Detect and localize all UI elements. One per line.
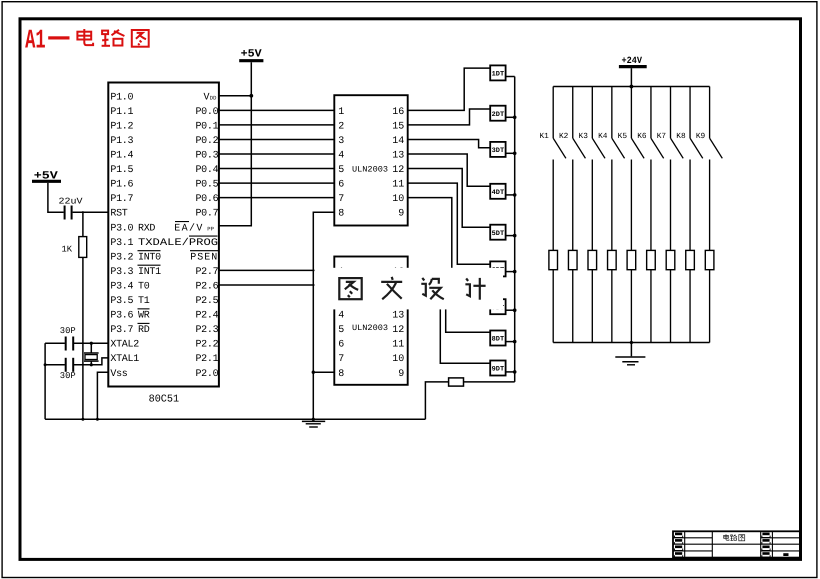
svg-text:K5: K5: [618, 132, 628, 141]
node U3 pin8 junction: [312, 371, 315, 374]
svg-text:P1.5: P1.5: [110, 165, 133, 176]
wire 1DT output: [506, 76, 515, 78]
svg-text:P2.0: P2.0: [195, 369, 218, 380]
node C3 left junction: [44, 363, 47, 366]
wire K4 to coil: [611, 160, 613, 251]
svg-text:4DT: 4DT: [492, 189, 505, 197]
svg-text:XTAL1: XTAL1: [110, 354, 139, 365]
driver box 8DT: [490, 331, 505, 346]
wire XTAL1: [74, 358, 108, 365]
svg-text:RST: RST: [110, 209, 127, 220]
svg-text:T0: T0: [138, 281, 150, 292]
node rail R1: [81, 418, 84, 421]
svg-text:P3.4: P3.4: [110, 281, 133, 292]
relay coil J5: [627, 250, 636, 269]
svg-text:TXDALE/PROG: TXDALE/PROG: [138, 237, 218, 249]
power +5V top: [239, 49, 263, 61]
wire 4DT output: [506, 194, 515, 196]
svg-text:13: 13: [392, 311, 404, 322]
wire caps to ground: [44, 343, 46, 419]
wire 3DT output: [506, 152, 515, 154]
wire XTAL2: [74, 342, 108, 344]
wire VDD: [219, 95, 251, 97]
U1 left pin labels: [110, 92, 139, 379]
wire crystal top stub: [90, 343, 92, 353]
svg-text:9DT: 9DT: [492, 366, 505, 374]
capacitor C1 22uV: [59, 197, 84, 220]
node bus 4DT: [513, 193, 517, 197]
wire P0.1 to U2 pin 2: [219, 124, 334, 126]
wire K7 to coil: [670, 160, 672, 251]
svg-text:5: 5: [338, 165, 344, 176]
watermark glyph wen: [381, 277, 402, 299]
title block scale mark: [783, 553, 788, 556]
title block redaction marks: [675, 533, 771, 558]
svg-text:12: 12: [392, 325, 404, 336]
svg-text:P1.2: P1.2: [110, 121, 133, 132]
wire 6DT output: [506, 271, 515, 273]
capacitor C3 30P bottom: [60, 358, 76, 381]
node +24V bus: [630, 85, 634, 89]
svg-text:+24V: +24V: [622, 55, 643, 66]
svg-text:80C51: 80C51: [149, 393, 180, 405]
svg-text:16: 16: [392, 107, 404, 118]
wire +5V to C1: [48, 183, 64, 212]
relay coil J9: [705, 250, 714, 269]
title block label glyphs: [724, 534, 745, 541]
wire P0.6 to U2 pin 7: [219, 197, 334, 199]
wire coil J4 to bus: [611, 270, 613, 343]
svg-text:P1.0: P1.0: [110, 92, 133, 103]
wire K9 to coil: [709, 160, 711, 251]
wire K3 to coil: [591, 160, 593, 251]
node VDD junction: [249, 94, 253, 98]
svg-text:K1: K1: [539, 132, 549, 141]
wire U3 pin 16 to 8DT: [408, 270, 491, 332]
svg-text:P3.2: P3.2: [110, 252, 133, 263]
svg-text:1K: 1K: [62, 244, 73, 254]
svg-text:7: 7: [338, 354, 344, 365]
U1 right pin labels: [174, 92, 218, 379]
resistor R2: [449, 378, 464, 386]
wire C3 left lead: [45, 364, 65, 366]
driver box 5DT: [490, 225, 505, 240]
switch K7: [657, 87, 683, 159]
svg-text:9: 9: [398, 369, 404, 380]
svg-text:6: 6: [338, 180, 344, 191]
wire U2 pin8 to ground: [313, 212, 334, 419]
wire K8 to coil: [689, 160, 691, 251]
watermark glyph ji: [465, 278, 485, 300]
svg-text:P0.3: P0.3: [195, 151, 218, 162]
wire coil J5 to bus: [630, 270, 632, 343]
wire P0.2 to U2 pin 3: [219, 138, 334, 140]
U1 P3 function labels: [138, 223, 219, 336]
node bus 8DT: [513, 340, 517, 344]
IC U3 ULN2003: [334, 257, 407, 385]
wire 2DT output: [506, 116, 515, 118]
title block table: [673, 531, 800, 557]
svg-text:P3.7: P3.7: [110, 325, 133, 336]
ground symbol left: [302, 421, 325, 427]
svg-text:P2.3: P2.3: [195, 325, 218, 336]
node rail ULN: [312, 418, 315, 421]
wire +24V stub: [630, 68, 632, 86]
svg-text:5: 5: [338, 325, 344, 336]
svg-text:30P: 30P: [60, 326, 76, 336]
svg-text:P2.1: P2.1: [195, 354, 218, 365]
node bus 3DT: [513, 152, 517, 156]
svg-text:P0.1: P0.1: [195, 121, 218, 132]
watermark panel: [315, 268, 504, 310]
node relay ground: [630, 341, 633, 344]
node RST junction: [82, 211, 84, 213]
node bus 6DT: [513, 270, 517, 274]
title glyph lu: [102, 30, 125, 46]
svg-text:P2.7: P2.7: [195, 267, 218, 278]
wire P0.3 to U2 pin 4: [219, 153, 334, 155]
svg-text:P2.5: P2.5: [195, 296, 218, 307]
svg-text:+5V: +5V: [241, 49, 262, 61]
svg-text:DD: DD: [210, 95, 217, 102]
svg-text:P2.4: P2.4: [195, 311, 218, 322]
svg-text:P0.7: P0.7: [195, 209, 218, 220]
svg-text:P0.5: P0.5: [195, 180, 218, 191]
watermark glyph tu: [339, 278, 361, 299]
wire coil J9 to bus: [709, 270, 711, 343]
wire coil J7 to bus: [670, 270, 672, 343]
wire crystal bottom stub: [90, 361, 92, 365]
svg-text:RD: RD: [138, 325, 150, 336]
wire R1 to ground rail: [82, 257, 84, 419]
wire U2 pin 15 to 2DT: [408, 109, 491, 125]
svg-text:8DT: 8DT: [492, 336, 505, 344]
svg-text:T1: T1: [138, 296, 150, 307]
wire U2 pin 12 to 5DT: [408, 169, 491, 228]
relay coil J3: [588, 250, 597, 269]
svg-text:30P: 30P: [60, 371, 76, 381]
wire coil J8 to bus: [689, 270, 691, 343]
svg-text:V: V: [203, 92, 209, 103]
svg-text:P0.6: P0.6: [195, 194, 218, 205]
svg-text:Vss: Vss: [110, 369, 127, 380]
wire C2 left lead: [45, 342, 65, 344]
wire P0.5 to U2 pin 6: [219, 182, 334, 184]
svg-text:XTAL2: XTAL2: [110, 340, 139, 351]
wire Vss: [97, 372, 108, 419]
svg-text:K7: K7: [657, 132, 667, 141]
node bus 5DT: [513, 234, 517, 238]
svg-text:INT1: INT1: [138, 267, 161, 278]
svg-text:A1: A1: [25, 27, 45, 57]
wire U3 pin 15 to 9DT: [408, 285, 491, 363]
svg-text:P1.4: P1.4: [110, 151, 133, 162]
resistor R1 1K: [62, 237, 87, 258]
driver box 7DT: [490, 299, 505, 314]
title dash: [48, 36, 69, 39]
relay coil J4: [608, 250, 617, 269]
wire relay bottom bus: [553, 342, 709, 344]
node crystal bottom: [90, 363, 93, 366]
svg-text:INT0: INT0: [138, 252, 161, 263]
switch K8: [676, 87, 702, 159]
wire coil J3 to bus: [591, 270, 593, 343]
ground symbol relay: [615, 357, 645, 365]
switch K6: [637, 87, 663, 159]
svg-text:WR: WR: [138, 311, 150, 322]
driver box 6DT: [490, 261, 505, 276]
svg-text:3DT: 3DT: [492, 147, 505, 155]
svg-text:K4: K4: [598, 132, 608, 141]
wire U2 pin 16 to 1DT: [408, 68, 491, 110]
svg-text:P3.1: P3.1: [110, 238, 133, 249]
wire U2 pin 11 to 6DT: [408, 183, 491, 264]
svg-text:P3.5: P3.5: [110, 296, 133, 307]
driver box 1DT: [490, 65, 505, 80]
svg-text:P1.1: P1.1: [110, 107, 133, 118]
svg-text:P3.0: P3.0: [110, 223, 133, 234]
wire resistor to ground rail: [425, 382, 448, 419]
svg-text:P1.6: P1.6: [110, 180, 133, 191]
svg-text:9: 9: [398, 209, 404, 220]
wire P2.6 to U3 pin2: [219, 284, 334, 286]
svg-text:K8: K8: [676, 132, 686, 141]
svg-text:4: 4: [338, 151, 344, 162]
wire U2 pin 10 to 7DT: [408, 198, 491, 303]
node crystal top: [90, 342, 93, 345]
svg-text:8: 8: [338, 369, 344, 380]
svg-text:P2.6: P2.6: [195, 281, 218, 292]
title glyph dian: [77, 29, 93, 45]
title glyph tu: [132, 30, 149, 47]
wire K1 to coil: [552, 160, 554, 251]
svg-text:11: 11: [392, 340, 404, 351]
svg-text:6: 6: [338, 340, 344, 351]
IC U1 80C51: [108, 83, 219, 406]
node bus 7DT: [513, 308, 517, 312]
wire +5V vertical to EA: [219, 62, 251, 225]
svg-text:12: 12: [392, 165, 404, 176]
svg-text:P0.0: P0.0: [195, 107, 218, 118]
power +24V: [619, 55, 647, 66]
IC U2 ULN2003: [334, 95, 407, 225]
power +5V left: [32, 171, 61, 183]
svg-text:P1.7: P1.7: [110, 194, 133, 205]
svg-text:1: 1: [338, 107, 344, 118]
wire relay ground stub: [630, 343, 632, 357]
svg-text:1DT: 1DT: [492, 71, 505, 79]
crystal Y1: [84, 353, 99, 361]
svg-text:P2.2: P2.2: [195, 340, 218, 351]
switch K3: [579, 87, 605, 159]
svg-text:K3: K3: [579, 132, 589, 141]
svg-text:K9: K9: [696, 132, 706, 141]
driver box 3DT: [490, 142, 505, 157]
wire P0.0 to U2 pin 1: [219, 109, 334, 111]
wire U2 pin 13 to 4DT: [408, 154, 491, 186]
wire K6 to coil: [650, 160, 652, 251]
svg-text:13: 13: [392, 151, 404, 162]
svg-text:10: 10: [392, 194, 404, 205]
svg-text:K6: K6: [637, 132, 647, 141]
wire U3 pin8 stub: [313, 371, 334, 373]
wire RST: [73, 211, 109, 213]
switch K1: [539, 87, 565, 159]
svg-text:PSEN: PSEN: [190, 252, 218, 263]
relay coil J2: [568, 250, 577, 269]
wire 5DT output: [506, 235, 515, 237]
svg-text:ULN2003: ULN2003: [352, 165, 388, 174]
wire 7DT output: [506, 309, 515, 311]
svg-text:2: 2: [338, 121, 344, 132]
switch K2: [559, 87, 585, 159]
svg-text:PP: PP: [207, 226, 214, 233]
driver box 9DT: [490, 361, 505, 376]
wire P0.4 to U2 pin 5: [219, 168, 334, 170]
svg-text:2DT: 2DT: [492, 111, 505, 119]
node bus 2DT: [513, 116, 517, 120]
switch K4: [598, 87, 624, 159]
node rail Vss: [96, 418, 99, 421]
relay coil J6: [647, 250, 656, 269]
node bus 9DT: [513, 370, 517, 374]
ground rail: [45, 418, 425, 420]
svg-text:P0.4: P0.4: [195, 165, 218, 176]
relay coil J7: [666, 250, 675, 269]
svg-text:K2: K2: [559, 132, 569, 141]
svg-text:7: 7: [338, 194, 344, 205]
svg-text:P3.3: P3.3: [110, 267, 133, 278]
wire 9DT output: [506, 371, 515, 373]
svg-text:8: 8: [338, 209, 344, 220]
watermark glyph she: [421, 278, 444, 299]
svg-text:P0.2: P0.2: [195, 136, 218, 147]
svg-text:5DT: 5DT: [492, 230, 505, 238]
wire driver bus vertical: [514, 77, 516, 382]
svg-text:RXD: RXD: [138, 223, 155, 234]
svg-text:14: 14: [392, 136, 404, 147]
wire +24V top bus: [553, 86, 709, 88]
wire R1 top: [82, 212, 84, 236]
wire coil J6 to bus: [650, 270, 652, 343]
svg-text:22uV: 22uV: [59, 197, 84, 207]
relay coil J1: [549, 250, 558, 269]
wire bus to resistor: [464, 381, 515, 383]
switch K5: [618, 87, 644, 159]
svg-text:10: 10: [392, 354, 404, 365]
wire P2.7 to U3 pin1: [219, 269, 334, 271]
wire K2 to coil: [572, 160, 574, 251]
svg-text:15: 15: [392, 121, 404, 132]
switch K9: [696, 87, 722, 159]
driver box 2DT: [490, 106, 505, 121]
svg-text:ULN2003: ULN2003: [352, 324, 388, 333]
svg-text:11: 11: [392, 180, 404, 191]
wire coil J2 to bus: [572, 270, 574, 343]
svg-text:P3.6: P3.6: [110, 311, 133, 322]
svg-text:EA/V: EA/V: [174, 222, 204, 234]
relay coil J8: [686, 250, 695, 269]
svg-text:4: 4: [338, 311, 344, 322]
wire U2 pin 14 to 3DT: [408, 139, 491, 147]
driver box 4DT: [490, 184, 505, 199]
wire 8DT output: [506, 341, 515, 343]
svg-text:P1.3: P1.3: [110, 136, 133, 147]
wire K5 to coil: [630, 160, 632, 251]
capacitor C2 30P top: [60, 326, 76, 351]
svg-text:3: 3: [338, 136, 344, 147]
wire coil J1 to bus: [552, 270, 554, 343]
